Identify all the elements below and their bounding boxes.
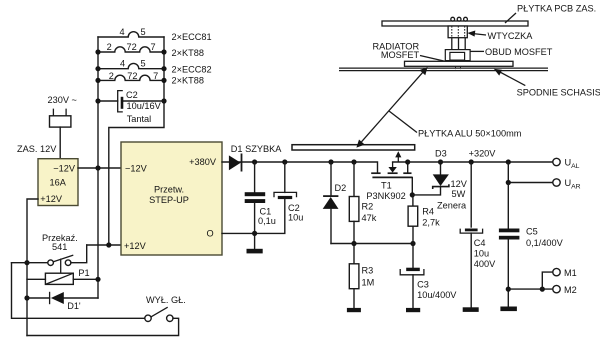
node dot row4 right: [161, 78, 166, 83]
node dot R2/R3: [351, 241, 356, 246]
wire to relay contact: [12, 262, 48, 264]
capacitor C2 tantal bracket plate: [118, 91, 123, 112]
diode D2 triangle: [323, 197, 339, 209]
svg-text:MOSFET: MOSFET: [381, 50, 420, 60]
+320V rail to output: [408, 161, 553, 163]
svg-text:PŁYTKA ALU 50×100mm: PŁYTKA ALU 50×100mm: [418, 129, 522, 139]
node dot -12V / heater bus: [95, 165, 100, 170]
svg-text:2: 2: [109, 71, 114, 81]
svg-text:UAL: UAL: [565, 158, 580, 170]
svg-text:P1: P1: [78, 268, 89, 278]
MOSFET case OBUD outer: [445, 50, 470, 61]
leader line RADIATOR label: [420, 56, 446, 62]
resistor R3: [349, 264, 359, 289]
arrow SPODNIE SCHASIS: [494, 69, 526, 86]
svg-text:12V: 12V: [451, 179, 468, 189]
relay coil P1: [45, 273, 73, 284]
svg-text:230V ~: 230V ~: [48, 95, 77, 105]
svg-text:5W: 5W: [452, 189, 466, 199]
ground bar under C4: [463, 307, 479, 312]
wire R3 top: [353, 244, 355, 264]
arrow WTYCZKA label: [467, 31, 486, 37]
svg-text:Przetw.: Przetw.: [154, 185, 184, 195]
gate bias wire (mid rail): [331, 243, 413, 245]
wire M2 row: [508, 288, 552, 290]
capacitor C4 bracket plate: [460, 229, 482, 234]
terminal UAL: [553, 158, 560, 165]
svg-text:D1': D1': [67, 301, 81, 311]
svg-text:Tantal: Tantal: [127, 114, 152, 124]
left heater bus wire (-12V): [97, 37, 99, 298]
svg-text:7: 7: [151, 42, 156, 52]
wire C1 bottom: [254, 203, 256, 233]
svg-text:−12V: −12V: [125, 164, 148, 174]
svg-text:D1 SZYBKA: D1 SZYBKA: [231, 144, 282, 154]
wire R2 bottom: [353, 221, 355, 243]
svg-text:0,1u: 0,1u: [258, 216, 276, 226]
capacitor C3 bracket plate: [400, 269, 424, 275]
node dot row3 left: [95, 66, 100, 71]
node dot R2 top: [351, 159, 356, 164]
mains plug 230V: [50, 109, 71, 128]
svg-text:C2: C2: [288, 203, 300, 213]
wire +12V from ZAS down left side: [27, 199, 38, 336]
node dot row2 left: [95, 49, 100, 54]
ground bar under R3: [347, 308, 361, 312]
terminal M1: [553, 268, 560, 275]
PCB board bar: [382, 21, 528, 26]
svg-text:M2: M2: [564, 285, 577, 295]
svg-text:+380V: +380V: [189, 157, 217, 167]
node dot gate: [410, 192, 415, 197]
connector WTYCZKA body: [448, 26, 467, 38]
terminal M2: [553, 285, 560, 292]
capacitor C3 bar plate: [406, 268, 420, 271]
wire R3 bottom: [353, 289, 355, 308]
transistor T1 MOSFET symbol: [371, 162, 412, 177]
diode D2 cathode bar: [323, 195, 338, 197]
wire plug to ZAS box: [59, 127, 61, 159]
wire C3 bottom: [412, 275, 414, 308]
diode D1 cathode bar: [241, 154, 243, 172]
wire T1 gate down to gate node: [411, 177, 413, 195]
node dot D3 top: [438, 159, 443, 164]
capacitor C5 plates: [499, 229, 520, 240]
svg-text:2,7k: 2,7k: [422, 218, 440, 228]
svg-text:C1: C1: [260, 207, 272, 217]
resistor R4: [408, 206, 418, 226]
svg-text:C4: C4: [474, 238, 486, 248]
svg-text:10u/400V: 10u/400V: [417, 290, 457, 300]
wire -12V from ZAS to converter: [78, 167, 121, 169]
node dot UAR / C5: [506, 180, 511, 185]
wire C2 row: [98, 100, 164, 102]
heater row 3 wire with filament bump: [98, 63, 164, 68]
main +380V rail from converter to gate of T1: [222, 162, 378, 173]
svg-text:+320V: +320V: [469, 149, 497, 159]
node dot C2 left: [95, 98, 100, 103]
wire D2 top: [330, 162, 332, 195]
resistor R2: [349, 197, 359, 222]
wire C5 top: [507, 183, 509, 229]
svg-text:D2: D2: [335, 183, 347, 193]
svg-text:5: 5: [141, 59, 146, 69]
svg-text:STEP-UP: STEP-UP: [149, 195, 189, 205]
node dot UAR branch: [506, 159, 511, 164]
node dot D1' branch: [24, 295, 29, 300]
svg-text:UAR: UAR: [565, 178, 581, 190]
node dot coil / -12V: [95, 277, 100, 282]
wire gate node to zener: [412, 188, 440, 195]
double arrow ALU plate to radiator: [356, 67, 427, 148]
wire D1' row: [27, 297, 98, 299]
svg-text:400V: 400V: [474, 259, 496, 269]
power supply box ZAS 12V: [38, 159, 78, 206]
svg-text:R4: R4: [422, 207, 434, 217]
svg-text:ZAS. 12V: ZAS. 12V: [17, 144, 57, 154]
node dot C2 right: [161, 98, 166, 103]
svg-text:T1: T1: [381, 181, 392, 191]
svg-text:10u: 10u: [474, 249, 489, 259]
diode D1 triangle: [229, 155, 241, 170]
main switch WYL GL: [145, 307, 173, 321]
MOSFET case OBUD inner: [450, 52, 465, 60]
node dot row2 right: [161, 49, 166, 54]
svg-text:R2: R2: [362, 202, 374, 212]
leader line PLYTKA ALU label: [389, 111, 417, 133]
svg-text:541: 541: [52, 242, 67, 252]
capacitor C2 bar plate: [278, 196, 292, 199]
svg-text:D3: D3: [435, 148, 447, 158]
wire UAR branch: [508, 162, 552, 183]
svg-text:WYŁ. GŁ.: WYŁ. GŁ.: [146, 295, 186, 305]
heater row 2 wire with two filament bumps: [98, 47, 164, 52]
radiator bar: [405, 61, 514, 66]
svg-text:0,1/400V: 0,1/400V: [526, 238, 564, 248]
wire R4 bottom: [412, 226, 414, 243]
svg-text:OBUD MOSFET: OBUD MOSFET: [485, 47, 553, 57]
svg-text:10u: 10u: [288, 213, 303, 223]
wire down to main switch: [12, 263, 145, 319]
wire +12V into converter: [87, 244, 121, 246]
terminal UAR: [553, 179, 560, 186]
converter box Przetw. STEP-UP: [121, 142, 222, 255]
capacitor C2 bracket plate: [274, 192, 297, 197]
node dot C2 top: [282, 159, 287, 164]
svg-text:Zenera: Zenera: [437, 201, 467, 211]
leader line PCB label: [505, 13, 516, 23]
heater row 4 wire with two filament bumps: [98, 75, 164, 80]
zener diode D3 bar: [433, 184, 449, 189]
node dot C4 top: [469, 159, 474, 164]
svg-text:−12V: −12V: [53, 164, 76, 174]
wire switch return loop: [27, 318, 179, 335]
svg-text:5: 5: [140, 27, 145, 37]
svg-text:10u/16V: 10u/16V: [127, 101, 162, 111]
ALU mounting plate bar: [292, 145, 415, 150]
wire coil left: [27, 278, 45, 280]
svg-text:R3: R3: [362, 266, 374, 276]
wire R2 top: [353, 162, 355, 197]
svg-text:SPODNIE SCHASIS: SPODNIE SCHASIS: [517, 87, 600, 97]
node dot contact branch: [24, 260, 29, 265]
node dot C1 top: [252, 159, 257, 164]
node dot D2 top: [328, 159, 333, 164]
ground bar under C3: [406, 308, 420, 312]
svg-text:M1: M1: [564, 268, 577, 278]
connector pins to MOSFET: [452, 38, 465, 50]
svg-text:2×KT88: 2×KT88: [172, 75, 204, 85]
svg-text:+12V: +12V: [40, 194, 63, 204]
ground bar under C1: [247, 249, 263, 254]
wire C4 top: [470, 162, 472, 227]
svg-text:C2: C2: [126, 90, 138, 100]
capacitor C1 plates: [245, 192, 266, 203]
zener diode D3 triangle: [433, 174, 449, 186]
svg-text:72: 72: [127, 71, 137, 81]
wire O output to ground: [222, 233, 255, 248]
svg-text:7: 7: [153, 71, 158, 81]
wire contact to +12V converter line: [71, 245, 87, 263]
svg-text:+12V: +12V: [124, 241, 147, 251]
svg-text:O: O: [207, 229, 214, 239]
solder bumps on PCB: [451, 17, 468, 21]
wire coil right to -12V line: [73, 278, 98, 280]
svg-text:2×KT88: 2×KT88: [172, 48, 204, 58]
node dot R4/C3: [410, 241, 415, 246]
svg-text:4: 4: [120, 59, 125, 69]
MOSFET case legs: [450, 61, 466, 64]
svg-text:1M: 1M: [362, 278, 375, 288]
MOSFET mounting screw dashed: [456, 61, 461, 71]
svg-text:2: 2: [107, 42, 112, 52]
wire C2 bottom: [255, 199, 285, 233]
node dot heater +12V return: [106, 242, 111, 247]
svg-text:72: 72: [126, 42, 136, 52]
svg-text:WTYCZKA: WTYCZKA: [488, 31, 534, 41]
svg-text:C5: C5: [526, 227, 538, 237]
chassis double line: [339, 68, 548, 71]
node dot row3 right: [161, 66, 166, 71]
heater row 1 wire with filament bump: [98, 32, 164, 37]
svg-text:PŁYTKA PCB ZAS.: PŁYTKA PCB ZAS.: [517, 4, 596, 14]
svg-text:P3NK902: P3NK902: [366, 191, 405, 201]
wire D2 bottom: [330, 209, 332, 244]
svg-text:16A: 16A: [50, 177, 67, 187]
wire C2 top: [284, 162, 286, 192]
right heater bus wire with jog to +12V: [109, 37, 164, 245]
wire C3 top: [412, 244, 414, 268]
node dot C5 / M2: [506, 287, 511, 292]
wire C4 bottom: [470, 233, 472, 307]
ground bar under C5: [500, 307, 517, 312]
wire C1 top: [254, 162, 256, 192]
relay contact of P1: [48, 255, 74, 273]
wire R4 top: [412, 195, 414, 206]
svg-text:2×ECC81: 2×ECC81: [172, 32, 212, 42]
node dot T1 source: [405, 159, 410, 164]
thermal arrow T1 to ALU plate: [395, 151, 401, 162]
capacitor C2 tantal bar plate: [121, 97, 124, 109]
capacitor C4 bar plate: [465, 229, 478, 232]
node dot row4 left: [95, 78, 100, 83]
wire M1 branch: [542, 272, 552, 289]
svg-text:2×ECC82: 2×ECC82: [172, 65, 212, 75]
wire C5 bottom: [507, 240, 509, 307]
svg-text:C3: C3: [417, 280, 429, 290]
svg-text:47k: 47k: [362, 213, 377, 223]
svg-text:4: 4: [119, 27, 124, 37]
wire zener D3 top: [440, 162, 442, 174]
diode D1': [50, 292, 64, 304]
node dot O/C1/gnd: [252, 231, 257, 236]
node dot M1 branch: [540, 287, 545, 292]
leader line OBUD label: [470, 50, 484, 52]
